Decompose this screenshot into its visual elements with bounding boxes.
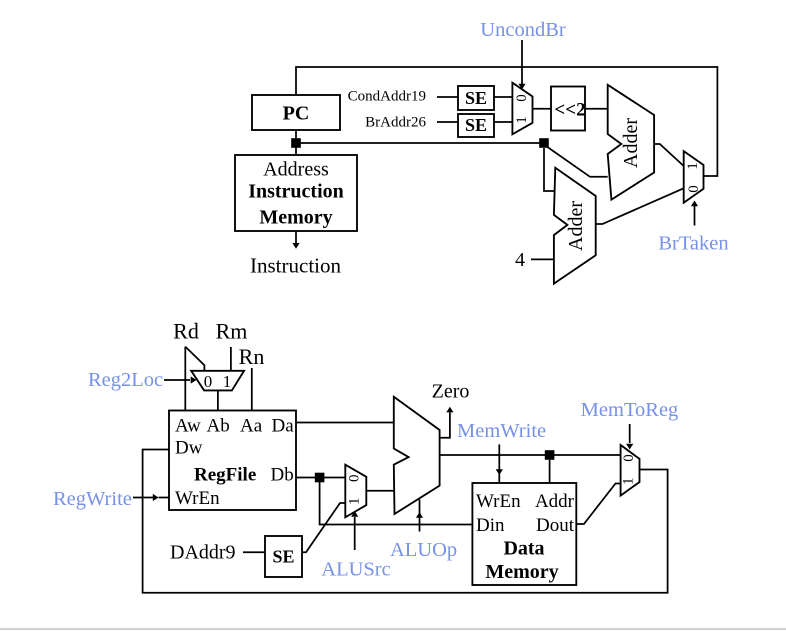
svg-text:Aw: Aw <box>175 416 201 437</box>
svg-text:0: 0 <box>347 475 363 483</box>
svg-text:Memory: Memory <box>259 207 332 229</box>
svg-text:Din: Din <box>476 515 505 536</box>
svg-text:Dw: Dw <box>175 438 203 459</box>
svg-text:MemToReg: MemToReg <box>581 399 679 421</box>
svg-text:<<2: <<2 <box>554 100 585 121</box>
svg-text:RegWrite: RegWrite <box>53 488 132 510</box>
svg-text:1: 1 <box>223 372 232 391</box>
svg-text:Db: Db <box>271 464 294 485</box>
svg-text:Adder: Adder <box>565 201 587 251</box>
svg-text:Rm: Rm <box>216 319 248 344</box>
svg-text:0: 0 <box>621 454 637 462</box>
svg-text:Addr: Addr <box>535 491 575 512</box>
svg-text:Rd: Rd <box>173 319 199 344</box>
svg-text:CondAddr19: CondAddr19 <box>348 89 426 105</box>
svg-text:Ab: Ab <box>207 416 230 437</box>
svg-text:Instruction: Instruction <box>250 254 341 278</box>
svg-text:Zero: Zero <box>432 380 470 402</box>
svg-text:BrAddr26: BrAddr26 <box>365 115 426 131</box>
svg-text:ALUSrc: ALUSrc <box>321 559 390 581</box>
svg-text:UncondBr: UncondBr <box>480 19 566 41</box>
svg-text:1: 1 <box>620 477 636 485</box>
svg-text:0: 0 <box>686 185 702 193</box>
svg-text:DAddr9: DAddr9 <box>170 542 236 564</box>
svg-text:Da: Da <box>272 416 295 437</box>
svg-text:0: 0 <box>514 94 530 102</box>
svg-text:RegFile: RegFile <box>194 464 256 485</box>
svg-text:SE: SE <box>272 547 294 567</box>
svg-text:4: 4 <box>515 249 525 271</box>
svg-text:1: 1 <box>346 497 362 505</box>
svg-text:SE: SE <box>465 88 487 108</box>
svg-text:Address: Address <box>263 159 329 181</box>
svg-text:PC: PC <box>283 103 310 125</box>
svg-text:Memory: Memory <box>485 561 558 583</box>
svg-text:ALUOp: ALUOp <box>390 539 457 561</box>
svg-text:WrEn: WrEn <box>175 488 220 509</box>
svg-text:1: 1 <box>514 116 530 124</box>
svg-text:Adder: Adder <box>620 118 642 168</box>
svg-text:1: 1 <box>685 162 701 170</box>
svg-text:0: 0 <box>204 372 213 391</box>
svg-text:MemWrite: MemWrite <box>457 420 546 442</box>
svg-text:Instruction: Instruction <box>248 181 344 203</box>
svg-text:Aa: Aa <box>240 416 263 437</box>
svg-text:BrTaken: BrTaken <box>658 233 728 255</box>
svg-text:Data: Data <box>503 538 544 560</box>
svg-text:Rn: Rn <box>239 344 265 369</box>
svg-text:WrEn: WrEn <box>476 491 521 512</box>
svg-text:Reg2Loc: Reg2Loc <box>88 369 163 391</box>
svg-text:Dout: Dout <box>536 515 575 536</box>
svg-text:SE: SE <box>465 115 487 135</box>
